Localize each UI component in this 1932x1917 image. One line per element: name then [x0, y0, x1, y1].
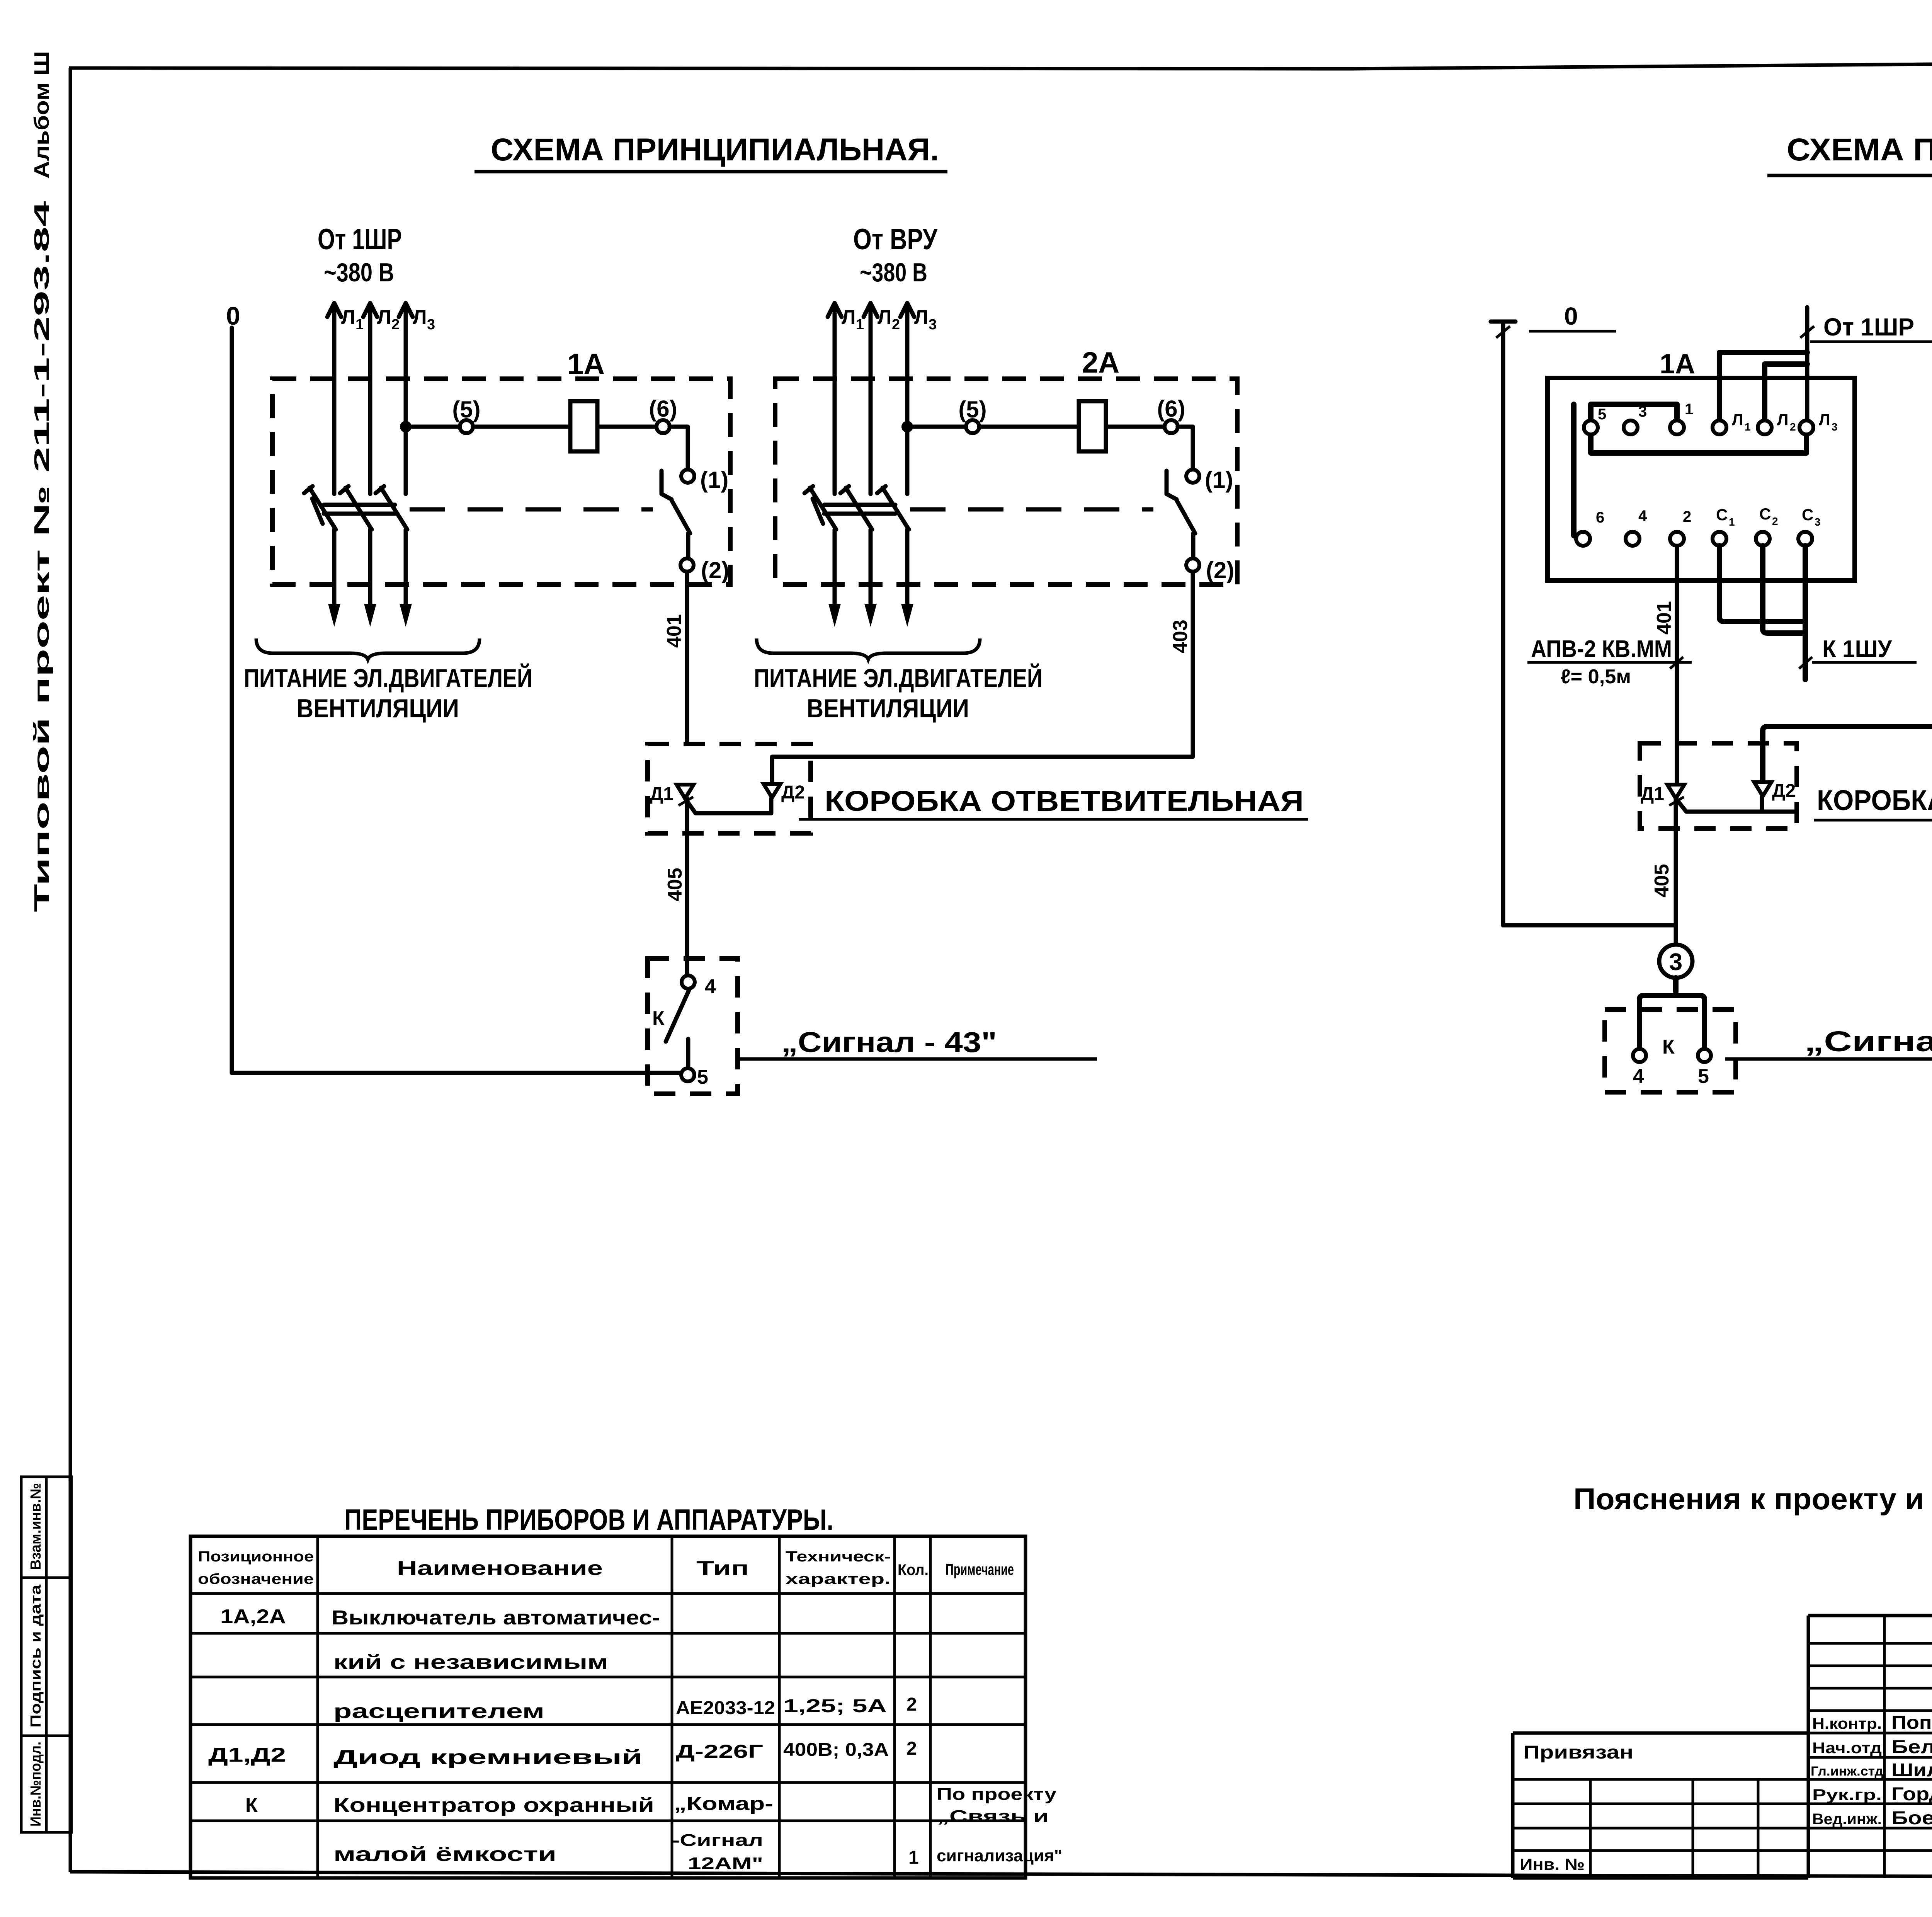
svg-text:Тип: Тип: [696, 1557, 749, 1580]
svg-text:(6): (6): [649, 396, 677, 422]
svg-text:сигнализация": сигнализация": [937, 1846, 1062, 1865]
svg-text:~380 В: ~380 В: [324, 258, 394, 287]
wire corner to terminal (1) feeder2: [1178, 427, 1193, 469]
wire branch to L2: [1765, 364, 1807, 421]
svg-text:(5): (5): [958, 397, 986, 422]
svg-text:2: 2: [906, 1694, 917, 1715]
svg-text:ℓ= 0,5м: ℓ= 0,5м: [1561, 666, 1631, 688]
svg-text:1: 1: [908, 1847, 919, 1868]
svg-text:Д1: Д1: [650, 784, 673, 804]
svg-text:3: 3: [1638, 403, 1647, 420]
wire branch to L1: [1719, 352, 1807, 421]
label Коробка ответвительная (right): [1814, 784, 1932, 820]
brace under feeder1 arrows: [256, 638, 480, 659]
svg-text:„Комар-: „Комар-: [674, 1794, 773, 1814]
breaker 1A trip bar: [324, 505, 395, 514]
terminal 5 (1A): [1584, 406, 1606, 434]
terminal 4 (1A): [1626, 507, 1647, 546]
switch blade of K (left): [666, 990, 689, 1067]
svg-text:Д2: Д2: [1772, 781, 1796, 801]
terminal (5) feeder2: [958, 397, 986, 433]
svg-text:1: 1: [1745, 421, 1751, 433]
svg-text:Подпись и дата: Подпись и дата: [28, 1584, 44, 1728]
svg-text:Гл.инж.стд: Гл.инж.стд: [1811, 1764, 1883, 1779]
title: Схема принципиальная: [474, 132, 947, 172]
svg-text:ВЕНТИЛЯЦИИ: ВЕНТИЛЯЦИИ: [297, 694, 459, 723]
svg-text:От ВРУ: От ВРУ: [853, 223, 938, 256]
terminal C2 (1A): [1756, 505, 1778, 546]
border frame bottom line: [70, 1872, 1932, 1878]
junction box dashed (left schematic): [648, 744, 811, 833]
wire: neutral 0 vertical and bottom run to K terminal 5: [232, 328, 680, 1073]
wire: phase L2 feeder1 with up arrow: [363, 303, 400, 494]
concentrator K dashed box (left schematic): [648, 958, 738, 1094]
title block names: [1891, 1713, 1932, 1828]
wire to terminal (6): [597, 425, 656, 429]
junction node on L3 feeder2: [901, 421, 913, 432]
diode D2 (right schematic): [1754, 781, 1796, 801]
wire 401 from terminal 2 down to diode D1: [1675, 546, 1679, 784]
diode D1 (right schematic): [1641, 784, 1684, 805]
wire to terminal (5) feeder2: [913, 425, 966, 429]
svg-text:ПИТАНИЕ ЭЛ.ДВИГАТЕЛЕЙ: ПИТАНИЕ ЭЛ.ДВИГАТЕЛЕЙ: [754, 663, 1043, 693]
table header: Позиционное обозначение: [198, 1549, 314, 1587]
svg-text:С: С: [1802, 506, 1813, 524]
wire to terminal (6) feeder2: [1106, 425, 1165, 429]
terminal C1 (1A): [1713, 506, 1735, 546]
svg-text:1,25; 5А: 1,25; 5А: [783, 1696, 887, 1716]
table row5: К Концентратор охранный Комар- По проекту Связь и: [245, 1785, 1057, 1826]
breaker 1A contact pole 1: [304, 486, 340, 627]
svg-text:Л: Л: [1777, 410, 1788, 429]
svg-text:КОРОБКА ОТВЕТВИТЕЛЬНАЯ: КОРОБКА ОТВЕТВИТЕЛЬНАЯ: [1817, 784, 1932, 816]
svg-text:Альбом Ш: Альбом Ш: [30, 51, 53, 179]
wire link D1-D2 (right): [1676, 797, 1796, 812]
svg-text:0: 0: [226, 301, 240, 330]
label: От 1ШР ~380В: [318, 223, 402, 287]
svg-text:„Сигнал - 43": „Сигнал - 43": [781, 1026, 997, 1058]
svg-text:Привязан: Привязан: [1523, 1742, 1633, 1763]
svg-text:2: 2: [892, 317, 900, 333]
svg-text:Л: Л: [341, 306, 355, 329]
svg-text:Л: Л: [1819, 410, 1830, 429]
label К 1ШУ: [1799, 636, 1917, 669]
svg-text:От 1ШР: От 1ШР: [1823, 313, 1914, 341]
concentrator K dashed box (right schematic): [1605, 1010, 1736, 1092]
svg-text:ПЕРЕЧЕНЬ ПРИБОРОВ И АППАРАТУРЫ: ПЕРЕЧЕНЬ ПРИБОРОВ И АППАРАТУРЫ.: [344, 1503, 833, 1536]
svg-text:2: 2: [906, 1738, 917, 1759]
svg-text:(6): (6): [1157, 396, 1185, 422]
wire: phase L3 feeder1 with up arrow: [399, 303, 435, 494]
svg-text:Пояснения к проекту и условные: Пояснения к проекту и условные обозначен…: [1573, 1482, 1932, 1516]
breaker 1A terminal box (connection diagram): [1548, 378, 1855, 581]
cable label АПВ-2 кв.мм l=0,5м (left): [1527, 636, 1692, 688]
svg-text:2: 2: [1772, 515, 1778, 527]
parts list table grid: [190, 1536, 1026, 1878]
terminal (6) feeder2: [1157, 396, 1185, 433]
wire: phase L2 feeder2 with up arrow: [864, 303, 900, 494]
terminal L1 (1A): [1713, 410, 1751, 434]
svg-text:401: 401: [663, 614, 685, 648]
breaker 2A contact pole 2: [840, 486, 877, 627]
border frame left line: [69, 68, 72, 1872]
svg-text:СХЕМА ПРИНЦИПИАЛЬНАЯ.: СХЕМА ПРИНЦИПИАЛЬНАЯ.: [491, 132, 939, 167]
wire to release coil feeder2: [979, 425, 1079, 429]
svg-text:Гордеев: Гордеев: [1891, 1784, 1932, 1805]
svg-text:Л: Л: [878, 306, 892, 329]
terminal 2 (1A): [1670, 508, 1691, 546]
svg-text:(5): (5): [452, 397, 480, 422]
wire: phase L1 feeder2 with up arrow: [828, 303, 864, 494]
svg-text:расцепителем: расцепителем: [333, 1700, 544, 1723]
svg-text:характер.: характер.: [786, 1571, 891, 1587]
svg-text:Д-226Г: Д-226Г: [676, 1742, 763, 1762]
wire drop from jumper to 6: [1574, 404, 1583, 539]
table row1: 1А,2А Выключатель автоматичес-: [220, 1605, 660, 1629]
auxiliary switch contact feeder2: [1167, 471, 1195, 558]
wire jumper 5 to 1: [1591, 404, 1677, 421]
wire to terminal (5): [412, 425, 460, 429]
terminal 5 of K (left): [681, 1066, 708, 1088]
svg-text:По проекту: По проекту: [937, 1785, 1057, 1804]
svg-text:Рук.гр.: Рук.гр.: [1812, 1786, 1882, 1803]
svg-text:Н.контр.: Н.контр.: [1812, 1715, 1882, 1732]
svg-text:С: С: [1716, 506, 1728, 524]
svg-text:„Сигнал-43": „Сигнал-43": [1804, 1025, 1932, 1057]
svg-text:Д1: Д1: [1641, 784, 1664, 804]
breaker 2A dashed enclosure: [775, 379, 1237, 584]
terminal (2) feeder1: [680, 557, 729, 583]
svg-text:1: 1: [355, 317, 364, 333]
diode D1 (left schematic): [650, 784, 694, 805]
terminal (1) feeder1: [681, 467, 728, 493]
svg-text:Примечание: Примечание: [946, 1560, 1014, 1578]
svg-text:(1): (1): [700, 467, 728, 493]
svg-text:1А: 1А: [1660, 349, 1695, 380]
svg-text:405: 405: [1651, 864, 1673, 897]
svg-text:Вед.инж.: Вед.инж.: [1812, 1811, 1882, 1828]
breaker 2A trip linkage dashed: [910, 507, 1153, 512]
svg-text:4: 4: [1633, 1065, 1644, 1088]
svg-text:Выключатель автоматичес-: Выключатель автоматичес-: [332, 1607, 660, 1629]
svg-text:Д1,Д2: Д1,Д2: [208, 1744, 286, 1766]
svg-text:~380 В: ~380 В: [860, 258, 927, 287]
svg-text:Наименование: Наименование: [397, 1557, 603, 1580]
feeder От 1ШР (right schematic): [1800, 307, 1932, 421]
terminal 5 of K (right): [1698, 1049, 1711, 1088]
svg-text:1: 1: [1685, 401, 1693, 418]
svg-text:Шилов: Шилов: [1891, 1760, 1932, 1781]
svg-text:-Сигнал: -Сигнал: [672, 1831, 763, 1850]
terminal C3 (1A): [1798, 506, 1821, 546]
breaker 1A dashed enclosure: [272, 379, 730, 584]
table header: Техническ. характер.: [786, 1549, 891, 1587]
svg-text:405: 405: [664, 868, 686, 901]
wire link D1-D2 inside junction box: [685, 798, 771, 813]
svg-text:К: К: [652, 1007, 665, 1030]
svg-text:401: 401: [1653, 601, 1675, 635]
svg-text:Типовой проект № 211-1-293.84: Типовой проект № 211-1-293.84: [30, 201, 53, 912]
wire 403 from feeder2 down and left into junction box: [772, 572, 1193, 782]
breaker 1A trip linkage dashed: [410, 507, 653, 512]
table row6: малой ёмкости -Сигнал 12АМ 1 сигнализация: [333, 1831, 1062, 1873]
svg-text:2А: 2А: [1082, 346, 1119, 379]
wire: phase L1 feeder1 with up arrow: [327, 303, 364, 494]
svg-text:АПВ-2 КВ.ММ: АПВ-2 КВ.ММ: [1531, 636, 1672, 662]
terminal (1) feeder2: [1186, 467, 1233, 493]
svg-text:Кол.: Кол.: [898, 1561, 929, 1578]
cable fan bracket to K: [1639, 978, 1704, 1049]
table row3: расцепителем АЕ2033-12 1,25;5А 2: [333, 1694, 917, 1723]
svg-text:СХЕМА ПРИСОЕДИНЕНИЙ.: СХЕМА ПРИСОЕДИНЕНИЙ.: [1787, 132, 1932, 167]
wire 405 down to concentrator: [685, 798, 689, 976]
svg-text:3: 3: [1832, 421, 1838, 433]
label Сигнал-43 with leader (left): [740, 1026, 1097, 1059]
svg-text:Инв. №: Инв. №: [1520, 1855, 1585, 1873]
svg-text:Л: Л: [377, 306, 391, 329]
terminal L2 (1A): [1758, 410, 1796, 434]
svg-text:2: 2: [1790, 421, 1796, 433]
svg-text:Л: Л: [914, 306, 929, 329]
svg-text:обозначение: обозначение: [198, 1571, 314, 1587]
wire C3 down к 1ШУ: [1803, 546, 1808, 679]
title: Схема присоединений: [1767, 132, 1932, 175]
terminal 1 (1A): [1670, 401, 1693, 434]
svg-text:малой ёмкости: малой ёмкости: [333, 1843, 556, 1866]
wire to release coil: [473, 425, 570, 429]
cable count circle 3: [1659, 945, 1692, 978]
svg-text:(1): (1): [1205, 467, 1233, 493]
svg-text:С: С: [1759, 505, 1771, 523]
svg-text:Позиционное: Позиционное: [198, 1549, 314, 1565]
diode D2 (left schematic): [764, 782, 805, 803]
svg-text:Л: Л: [1732, 410, 1743, 429]
svg-text:Л: Л: [842, 306, 856, 329]
junction node on L3 feeder1: [400, 421, 412, 432]
title block left appendage Привязан: [1513, 1733, 1808, 1878]
svg-text:Л: Л: [413, 306, 427, 329]
svg-text:(2): (2): [701, 557, 729, 583]
wire 405 (right schematic): [1503, 798, 1676, 945]
svg-text:0: 0: [1564, 302, 1578, 330]
label: От ВРУ ~380В: [853, 223, 938, 287]
label Сигнал-43 with leader (right): [1725, 1025, 1932, 1059]
svg-text:Техническ-: Техническ-: [786, 1549, 891, 1565]
svg-text:1А,2А: 1А,2А: [220, 1605, 286, 1628]
svg-text:От 1ШР: От 1ШР: [318, 223, 402, 256]
terminal L3 (1A): [1799, 410, 1838, 434]
breaker 2A trip bar: [824, 505, 895, 514]
brace under feeder2 arrows: [757, 638, 980, 659]
svg-text:„Связь и: „Связь и: [937, 1807, 1049, 1826]
terminal (6) feeder1: [649, 396, 677, 433]
svg-text:(2): (2): [1206, 557, 1234, 583]
svg-text:6: 6: [1596, 509, 1604, 526]
svg-text:403: 403: [1169, 620, 1192, 653]
svg-text:Инв.№подл.: Инв.№подл.: [28, 1742, 44, 1827]
svg-text:3: 3: [929, 317, 937, 333]
svg-text:К 1ШУ: К 1ШУ: [1822, 636, 1892, 662]
breaker 1A contact pole 3: [376, 486, 412, 627]
table row4: Д1,Д2 Диод кремниевый Д-226Г 400В;0,3А 2: [208, 1738, 917, 1769]
margin stamp table: [21, 1477, 71, 1832]
svg-text:5: 5: [1698, 1065, 1709, 1088]
terminal 3 (1A): [1624, 403, 1647, 434]
svg-text:К: К: [245, 1794, 258, 1817]
title block role labels: [1811, 1715, 1883, 1828]
svg-text:3: 3: [1815, 516, 1821, 528]
release coil rectangle feeder2: [1079, 401, 1106, 451]
border frame top line: [69, 59, 1932, 69]
svg-text:К: К: [1662, 1036, 1675, 1058]
svg-text:ПИТАНИЕ ЭЛ.ДВИГАТЕЛЕЙ: ПИТАНИЕ ЭЛ.ДВИГАТЕЛЕЙ: [244, 663, 532, 693]
wire: phase L3 feeder2 with up arrow: [900, 303, 937, 494]
terminal 4 of K (left): [682, 976, 716, 998]
label: Питание эл.двигателей вентиляции (feeder1): [244, 663, 532, 723]
label: Питание эл.двигателей вентиляции (feeder2): [754, 663, 1043, 723]
svg-text:Боева: Боева: [1891, 1808, 1932, 1828]
wire 5 to L3 bottom run: [1591, 434, 1806, 453]
svg-text:3: 3: [427, 317, 435, 333]
wire C1 bend (1A): [1719, 546, 1802, 621]
svg-text:5: 5: [697, 1066, 708, 1088]
svg-text:кий с независимым: кий с независимым: [333, 1651, 608, 1674]
breaker 2A contact pole 1: [804, 486, 841, 627]
svg-text:3: 3: [1669, 949, 1682, 976]
svg-text:Д2: Д2: [781, 782, 805, 803]
svg-text:Диод кремниевый: Диод кремниевый: [333, 1746, 643, 1769]
label: Коробка ответвительная (left): [799, 785, 1308, 819]
terminal (5) feeder1: [452, 397, 480, 433]
svg-text:Попова: Попова: [1891, 1713, 1932, 1733]
title block signature table grid: [1808, 1616, 1932, 1878]
svg-text:5: 5: [1598, 406, 1606, 423]
svg-text:АЕ2033-12: АЕ2033-12: [676, 1698, 775, 1718]
svg-text:2: 2: [1683, 508, 1691, 525]
release coil rectangle feeder1: [570, 401, 597, 451]
svg-text:Белов: Белов: [1891, 1737, 1932, 1757]
svg-text:ВЕНТИЛЯЦИИ: ВЕНТИЛЯЦИИ: [807, 694, 969, 723]
svg-text:КОРОБКА ОТВЕТВИТЕЛЬНАЯ: КОРОБКА ОТВЕТВИТЕЛЬНАЯ: [825, 785, 1304, 817]
terminal 6 (1A): [1576, 509, 1604, 546]
breaker 2A contact pole 3: [877, 486, 913, 627]
auxiliary switch contact feeder1: [662, 471, 690, 558]
svg-text:1: 1: [856, 317, 864, 333]
terminal (2) feeder2: [1186, 557, 1234, 583]
terminal 4 of K (right): [1633, 1049, 1646, 1088]
svg-text:Концентратор охранный: Концентратор охранный: [333, 1794, 654, 1817]
node 0 neutral (right schematic): [1491, 302, 1616, 925]
breaker 1A contact pole 2: [340, 486, 376, 627]
svg-text:4: 4: [1638, 507, 1647, 524]
wire C2 bend (1A): [1763, 546, 1804, 633]
svg-text:1: 1: [1729, 516, 1735, 528]
svg-text:Нач.отд: Нач.отд: [1812, 1740, 1882, 1757]
wire 401 down to junction box: [685, 572, 689, 744]
svg-text:Взам.инв.№: Взам.инв.№: [28, 1483, 44, 1570]
svg-text:1А: 1А: [567, 348, 605, 381]
svg-text:400В; 0,3А: 400В; 0,3А: [783, 1740, 889, 1760]
svg-text:4: 4: [705, 976, 716, 998]
junction box dashed (right schematic): [1640, 743, 1797, 829]
wire 403 long run from 2A terminal 2: [1763, 522, 1932, 781]
wire corner to terminal (1): [670, 427, 688, 469]
svg-text:12АМ": 12АМ": [688, 1854, 763, 1873]
